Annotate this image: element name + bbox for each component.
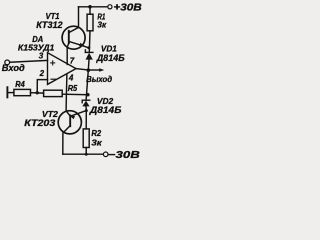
- node R2 bottom junction: [85, 153, 88, 156]
- svg-text:−30В: −30В: [108, 150, 140, 161]
- wire bottom rail: [63, 153, 104, 155]
- resistor R5: [44, 90, 63, 96]
- node junction R1 top: [88, 5, 92, 9]
- pin 4 wire: [66, 74, 70, 115]
- svg-text:К153УД1: К153УД1: [18, 42, 55, 52]
- wire R4 to node: [31, 92, 44, 94]
- svg-text:2: 2: [39, 69, 45, 78]
- node inverting input junction: [36, 91, 39, 94]
- wire top rail: [79, 6, 108, 8]
- node R5 rail junction: [86, 93, 89, 96]
- terminal input common bar: [6, 87, 8, 97]
- terminal -30V: [103, 152, 108, 157]
- op-amp DA K153UD1: [48, 53, 89, 85]
- pin 3 input wire: [10, 60, 48, 62]
- svg-text:4: 4: [68, 73, 74, 82]
- svg-text:КТ312: КТ312: [36, 20, 62, 30]
- node VT2 emitter junction: [85, 109, 88, 112]
- svg-text:7: 7: [70, 56, 75, 65]
- terminal +30V: [108, 5, 112, 9]
- svg-text:Д814Б: Д814Б: [89, 105, 122, 115]
- svg-text:+30В: +30В: [113, 3, 141, 14]
- pin 7 wire: [67, 43, 69, 64]
- wire rail output to VD2: [86, 70, 88, 100]
- transistor VT1: [62, 7, 89, 49]
- resistor R2: [83, 129, 89, 154]
- svg-text:3к: 3к: [91, 137, 102, 147]
- wire R5 to output rail: [62, 93, 88, 96]
- svg-text:3: 3: [39, 52, 44, 61]
- svg-text:Выход: Выход: [86, 75, 112, 84]
- svg-text:КТ203: КТ203: [24, 118, 55, 128]
- svg-text:Вход: Вход: [2, 63, 25, 73]
- resistor R1: [87, 7, 93, 31]
- zener diode VD1: [85, 50, 93, 70]
- node output junction: [87, 68, 91, 72]
- wire rail VD2 to R2: [85, 111, 87, 129]
- node VT1 emitter junction: [87, 46, 90, 49]
- svg-text:3к: 3к: [97, 20, 107, 29]
- pin 2 wire: [37, 80, 47, 93]
- resistor R4: [14, 89, 31, 95]
- zener diode VD2: [82, 100, 90, 110]
- terminal input: [5, 60, 10, 65]
- wire rail R1 to VD1: [88, 31, 91, 52]
- svg-text:R5: R5: [68, 84, 78, 93]
- wire common to R4: [7, 92, 13, 94]
- svg-text:Д814Б: Д814Б: [96, 53, 126, 63]
- transistor VT2: [58, 111, 86, 155]
- wire output arrow: [88, 68, 104, 72]
- svg-text:R4: R4: [15, 80, 25, 89]
